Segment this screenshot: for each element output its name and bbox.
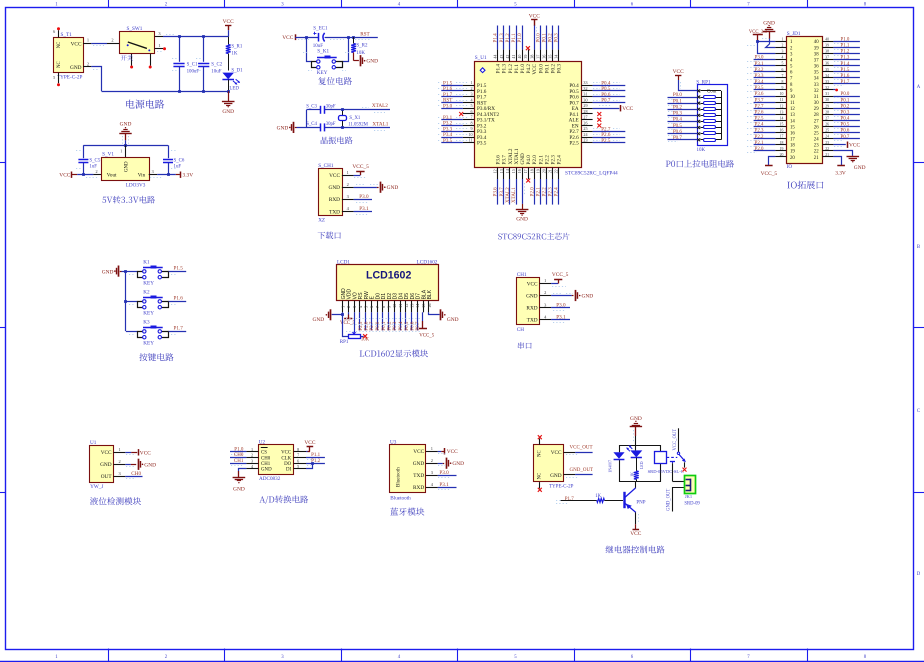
- svg-text:K3: K3: [143, 320, 150, 326]
- MCU top wires and net labels: [497, 26, 499, 50]
- svg-text:1: 1: [87, 38, 89, 43]
- svg-text:27: 27: [814, 119, 819, 124]
- svg-text:1K: 1K: [231, 52, 237, 57]
- transistor base resistor 1K: [561, 500, 597, 502]
- svg-text:P1.1: P1.1: [514, 64, 520, 74]
- LCD1 body: [337, 265, 439, 301]
- svg-text:CH1: CH1: [261, 462, 271, 467]
- svg-text:3.3V: 3.3V: [835, 171, 846, 177]
- svg-text:P3.5: P3.5: [443, 138, 453, 144]
- GND port (reset): [360, 55, 362, 66]
- svg-text:P0.7: P0.7: [673, 136, 683, 141]
- svg-text:P3.5: P3.5: [477, 141, 487, 147]
- MCU top pins 44-34: [497, 50, 499, 61]
- svg-text:9: 9: [781, 86, 783, 90]
- svg-text:31: 31: [583, 92, 587, 97]
- svg-text:P0.4: P0.4: [841, 117, 850, 122]
- svg-text:S_R1: S_R1: [231, 44, 242, 49]
- svg-text:2: 2: [781, 44, 783, 48]
- S_V1 right pin 3: [149, 174, 158, 176]
- S_SW1 left pin 2: [107, 43, 119, 45]
- svg-text:34: 34: [814, 77, 819, 82]
- MCU pin1 diamond mark: [480, 68, 485, 73]
- no-ERC cross T2 bottom: [538, 488, 542, 492]
- svg-text:LED: LED: [229, 87, 239, 92]
- wire crystal top rail: [307, 109, 321, 111]
- wire LCD GND left: [332, 312, 343, 314]
- svg-text:LCD1: LCD1: [337, 259, 350, 265]
- svg-text:P3.1: P3.1: [755, 62, 764, 67]
- svg-text:40: 40: [825, 37, 829, 41]
- svg-text:11: 11: [790, 101, 795, 106]
- MCU S_U1 body: [475, 62, 582, 168]
- junction ldo top: [124, 144, 127, 147]
- svg-text:P0.3: P0.3: [554, 33, 560, 43]
- svg-text:P1.6: P1.6: [174, 296, 184, 302]
- title IO拓展口: [787, 181, 823, 189]
- svg-text:P2.4: P2.4: [755, 123, 764, 128]
- wire JD1 pin3 to 3.3 rail: [758, 41, 776, 53]
- svg-text:P3.7: P3.7: [502, 155, 508, 165]
- svg-text:VCC_5: VCC_5: [352, 164, 369, 170]
- svg-text:P3.5: P3.5: [755, 86, 764, 91]
- relay switch contact: [677, 452, 679, 454]
- svg-text:18: 18: [529, 169, 534, 173]
- svg-text:2: 2: [95, 169, 97, 174]
- svg-text:GND: GND: [582, 294, 594, 300]
- svg-text:P1.1: P1.1: [311, 453, 321, 458]
- svg-text:VCC: VCC: [71, 41, 82, 47]
- svg-text:P4.2: P4.2: [526, 64, 532, 74]
- svg-text:2: 2: [87, 61, 89, 66]
- VCC power port (power circuit): [225, 25, 231, 27]
- svg-text:P4.0: P4.0: [526, 155, 532, 165]
- svg-text:DI: DI: [286, 468, 292, 473]
- svg-text:6: 6: [297, 458, 299, 463]
- module U3 body: [390, 445, 426, 493]
- svg-text:32: 32: [814, 89, 819, 94]
- junction DO-DI: [311, 462, 314, 465]
- no-ERC cross pot right: [363, 334, 367, 338]
- svg-text:VCC: VCC: [622, 106, 633, 112]
- JD1 left wires P3.x P2.x: [754, 59, 776, 61]
- GND port (lcd right): [440, 309, 442, 320]
- svg-text:GND: GND: [222, 109, 234, 115]
- svg-text:GND: GND: [277, 125, 289, 131]
- svg-text:P1.3: P1.3: [502, 64, 508, 74]
- svg-text:B: B: [917, 245, 920, 250]
- GND port (adc): [233, 477, 246, 479]
- svg-text:P0.5: P0.5: [841, 123, 850, 128]
- svg-text:VCC_OUT: VCC_OUT: [673, 429, 678, 451]
- svg-text:10K: 10K: [356, 51, 365, 56]
- title 5V转3.3V电路: [102, 196, 155, 204]
- svg-text:GND: GND: [526, 293, 538, 299]
- svg-text:2: 2: [431, 458, 433, 463]
- svg-text:P0.4: P0.4: [399, 321, 404, 331]
- svg-text:P0.2: P0.2: [551, 64, 557, 74]
- svg-text:11: 11: [469, 138, 473, 143]
- resistor S_R1 1K: [228, 37, 230, 45]
- svg-text:VCC_5: VCC_5: [419, 333, 435, 338]
- svg-text:XTAL1: XTAL1: [511, 187, 517, 203]
- wire U2.GND down: [239, 469, 247, 472]
- svg-text:P0.1: P0.1: [673, 99, 683, 104]
- transistor Q1 PNP: [623, 492, 625, 508]
- svg-text:RXD: RXD: [413, 485, 424, 491]
- svg-text:CH0: CH0: [234, 453, 244, 458]
- svg-text:P2.3: P2.3: [548, 187, 554, 197]
- svg-text:P1.5: P1.5: [841, 68, 850, 73]
- connector S_CH1 body: [319, 169, 343, 216]
- svg-text:XTAL2: XTAL2: [508, 148, 514, 164]
- VCC port (JD1 pin23): [833, 144, 845, 146]
- svg-text:P0.0: P0.0: [376, 321, 381, 331]
- svg-text:P1.3: P1.3: [499, 33, 505, 43]
- svg-text:GND: GND: [329, 185, 341, 191]
- svg-text:S_JD1: S_JD1: [787, 31, 801, 37]
- GND port (MCU): [516, 209, 529, 211]
- svg-text:100uF: 100uF: [187, 69, 200, 74]
- svg-text:17: 17: [790, 138, 795, 143]
- svg-text:35: 35: [825, 68, 829, 72]
- svg-text:P0.3: P0.3: [393, 321, 398, 331]
- svg-text:26: 26: [814, 125, 819, 130]
- svg-text:S_SW1: S_SW1: [127, 26, 143, 32]
- svg-text:TYPE-C-2P: TYPE-C-2P: [549, 485, 574, 490]
- svg-text:RXD: RXD: [526, 306, 537, 312]
- VCC port (liquid): [125, 452, 131, 454]
- sheet zone markers: [108, 0, 110, 7]
- svg-text:17: 17: [780, 135, 784, 139]
- relay branch frame: [620, 446, 661, 453]
- svg-text:28: 28: [825, 110, 829, 114]
- svg-text:GND: GND: [550, 473, 562, 479]
- svg-text:P1.4: P1.4: [841, 62, 850, 67]
- resistor S_R2 10K: [353, 37, 355, 43]
- S_V1 left pin 2: [93, 174, 101, 176]
- LED S_D1: [222, 73, 234, 80]
- svg-text:XTAL2: XTAL2: [372, 103, 388, 109]
- svg-text:P2.5: P2.5: [755, 117, 764, 122]
- wire MCU EA to VCC: [593, 108, 620, 110]
- svg-text:42: 42: [505, 55, 510, 59]
- svg-text:GND: GND: [100, 462, 112, 468]
- svg-text:P2.3: P2.3: [755, 129, 764, 134]
- key K3: [138, 332, 145, 338]
- svg-text:P3.0: P3.0: [439, 470, 449, 476]
- svg-text:P0.2: P0.2: [388, 321, 393, 331]
- svg-text:VCC_5: VCC_5: [552, 272, 569, 278]
- svg-text:P2.5: P2.5: [359, 321, 364, 331]
- wire crystal left vertical: [306, 110, 308, 128]
- svg-text:36: 36: [542, 55, 547, 59]
- svg-text:27: 27: [583, 115, 587, 120]
- connector JK1 SRD-09 body: [685, 476, 696, 494]
- svg-text:S_C3: S_C3: [306, 105, 317, 110]
- svg-text:DO: DO: [284, 462, 292, 467]
- capacitor S_C5 1uF: [83, 145, 85, 158]
- svg-text:23: 23: [814, 144, 819, 149]
- svg-text:P1.0: P1.0: [841, 38, 850, 43]
- svg-text:5: 5: [297, 464, 299, 469]
- S_SW1 pin 1 no-connect dot: [163, 47, 166, 50]
- svg-text:38: 38: [814, 52, 819, 57]
- svg-text:P1.1: P1.1: [841, 44, 850, 49]
- svg-text:19: 19: [535, 169, 540, 173]
- svg-text:26: 26: [583, 120, 587, 125]
- wire pot right stub: [360, 336, 363, 338]
- wire LCD VO to pot wiper: [354, 312, 356, 330]
- title 复位电路: [318, 77, 352, 85]
- svg-text:VCC: VCC: [101, 450, 112, 456]
- svg-text:P3.0: P3.0: [556, 302, 566, 308]
- svg-text:U3: U3: [390, 439, 397, 445]
- junction C6 bottom: [167, 173, 170, 176]
- svg-text:9: 9: [471, 126, 473, 131]
- svg-text:K1: K1: [143, 260, 150, 266]
- svg-text:2: 2: [347, 182, 349, 187]
- svg-text:P1.2: P1.2: [508, 64, 514, 74]
- svg-text:VCC: VCC: [529, 13, 540, 19]
- GND port (JD1 pin2): [763, 31, 775, 33]
- svg-text:1K: 1K: [630, 472, 634, 477]
- svg-text:2: 2: [346, 306, 351, 308]
- svg-text:35: 35: [548, 55, 553, 59]
- svg-text:21: 21: [825, 153, 829, 157]
- switch S_SW1 body: [120, 32, 155, 54]
- junction LED bottom: [227, 90, 230, 93]
- svg-text:Vin: Vin: [138, 172, 146, 178]
- title 继电器控制电路: [606, 546, 665, 554]
- T2 top pin: [539, 439, 541, 445]
- svg-text:1: 1: [347, 170, 349, 175]
- svg-text:36: 36: [814, 65, 819, 70]
- svg-text:Vout: Vout: [107, 172, 117, 178]
- junction bottom rail C2: [202, 90, 205, 93]
- VCC_3.3 port (JD1 pin1): [758, 41, 775, 43]
- svg-text:GND: GND: [313, 317, 325, 323]
- svg-text:39: 39: [825, 44, 829, 48]
- regulator S_V1 LDO3V3 body: [102, 158, 150, 181]
- wire U2.CH0: [230, 457, 246, 459]
- svg-text:13: 13: [499, 169, 504, 173]
- svg-text:P2.0: P2.0: [529, 187, 535, 197]
- svg-text:BLK: BLK: [427, 289, 433, 299]
- VCC_5 port (JD1 pin20): [769, 157, 776, 166]
- no-ERC cross switch: [683, 468, 687, 472]
- svg-text:16: 16: [517, 169, 522, 173]
- svg-text:S_U1: S_U1: [475, 55, 487, 61]
- svg-text:GND: GND: [102, 270, 114, 276]
- svg-text:S_X1: S_X1: [349, 116, 361, 121]
- svg-text:25: 25: [583, 126, 587, 131]
- S_SW1 bottom pin dots: [130, 66, 133, 69]
- title LCD1602显示模块: [360, 350, 428, 358]
- S_T1 pin 2 GND: [83, 66, 91, 68]
- svg-text:1: 1: [471, 80, 473, 85]
- wire CH1.GND (serial): [551, 295, 572, 297]
- ADC U2 body: [259, 445, 294, 475]
- relay LED series resistor 1K: [636, 458, 638, 471]
- svg-text:GND: GND: [261, 468, 272, 473]
- svg-text:TXD: TXD: [329, 209, 340, 215]
- svg-text:30: 30: [825, 98, 829, 102]
- svg-text:P3.6: P3.6: [493, 187, 499, 197]
- S_SW1 pin 3: [155, 36, 163, 38]
- svg-text:38: 38: [529, 55, 534, 59]
- 3.3V port (JD1 pin21): [833, 157, 841, 166]
- svg-text:38: 38: [825, 50, 829, 54]
- svg-text:VCC_5: VCC_5: [761, 171, 778, 177]
- svg-text:VCC: VCC: [329, 173, 340, 179]
- svg-text:P3.6: P3.6: [496, 155, 502, 165]
- wire to key K1: [126, 271, 138, 273]
- key K1: [138, 272, 145, 278]
- S_JD1 pins and numbers: [775, 41, 786, 43]
- svg-text:SRD-09: SRD-09: [684, 501, 700, 506]
- wire CH1.TXD: [354, 211, 372, 213]
- svg-text:S_R2: S_R2: [356, 43, 368, 48]
- svg-text:1: 1: [781, 37, 783, 41]
- VCC_5 port (lcd BLA): [422, 312, 424, 321]
- svg-text:S_C1: S_C1: [187, 63, 198, 68]
- svg-text:8: 8: [781, 80, 783, 84]
- svg-text:GND: GND: [70, 65, 82, 71]
- MCU bottom pins 12-22: [497, 168, 499, 180]
- svg-text:CH: CH: [517, 327, 524, 333]
- svg-text:P2.7: P2.7: [755, 104, 764, 109]
- svg-text:37: 37: [814, 58, 819, 63]
- svg-text:27: 27: [825, 117, 829, 121]
- key K2: [138, 302, 145, 308]
- svg-text:P0.6: P0.6: [673, 130, 683, 135]
- svg-text:P3.0: P3.0: [443, 103, 453, 109]
- junction reset right: [347, 36, 350, 39]
- VCC port (RP1): [675, 75, 681, 77]
- VCC port (bt): [438, 451, 442, 453]
- junction crystal top: [341, 108, 344, 111]
- svg-text:P0.7: P0.7: [601, 98, 611, 104]
- junction reset left: [305, 36, 308, 39]
- wire U3.RXD: [438, 487, 457, 489]
- svg-text:P3.0: P3.0: [755, 56, 764, 61]
- svg-text:P1.4: P1.4: [493, 33, 499, 43]
- svg-text:P0.6: P0.6: [411, 321, 416, 331]
- relay coil dashed link: [667, 456, 678, 458]
- svg-text:VCC: VCC: [630, 531, 641, 537]
- svg-text:GND_OUT: GND_OUT: [666, 489, 671, 511]
- svg-text:P1.2: P1.2: [841, 50, 850, 55]
- svg-text:1: 1: [120, 149, 122, 154]
- svg-text:S_C6: S_C6: [174, 158, 185, 163]
- junction JD1 row1: [756, 40, 759, 43]
- wire LED to bottom rail: [228, 80, 230, 92]
- svg-text:29: 29: [814, 107, 819, 112]
- S_T1 top pin no-connect dot: [57, 27, 60, 30]
- svg-text:2: 2: [111, 38, 113, 43]
- svg-text:39: 39: [814, 46, 819, 51]
- svg-text:20: 20: [790, 156, 795, 161]
- svg-text:18: 18: [790, 144, 795, 149]
- svg-text:40: 40: [517, 55, 522, 59]
- svg-text:CH0: CH0: [261, 456, 271, 461]
- svg-text:16: 16: [790, 131, 795, 136]
- svg-text:S_CH1: S_CH1: [318, 163, 334, 169]
- relay fixed contact T: [670, 461, 675, 463]
- svg-text:P2.6: P2.6: [755, 111, 764, 116]
- MCU left pins 1-11: [463, 85, 474, 87]
- relay LED: [630, 450, 642, 457]
- svg-text:KEY: KEY: [143, 281, 154, 287]
- svg-text:P2.1: P2.1: [535, 187, 541, 197]
- svg-text:P2.1: P2.1: [755, 141, 764, 146]
- svg-text:P0.6: P0.6: [841, 129, 850, 134]
- wire ldo Vin to 3.3V: [157, 174, 176, 176]
- wire U1.OUT: [125, 476, 142, 478]
- svg-text:RXD: RXD: [329, 197, 340, 203]
- svg-text:19: 19: [780, 147, 784, 151]
- svg-text:41: 41: [511, 55, 516, 59]
- wire key rail vertical: [125, 271, 127, 331]
- svg-text:28: 28: [583, 109, 587, 114]
- svg-text:S_C4: S_C4: [306, 122, 317, 127]
- wire T1.GND down to bottom rail: [91, 67, 101, 92]
- svg-text:7: 7: [781, 74, 783, 78]
- svg-text:35: 35: [814, 71, 819, 76]
- svg-text:P0.4: P0.4: [673, 118, 683, 123]
- GND port (download): [380, 182, 382, 193]
- svg-text:U1: U1: [90, 440, 97, 446]
- svg-text:P0.1: P0.1: [841, 98, 850, 103]
- VCC_OUT wire (switch): [678, 428, 680, 452]
- svg-text:P0.3: P0.3: [841, 111, 850, 116]
- svg-text:39: 39: [523, 55, 528, 59]
- svg-text:1: 1: [251, 447, 253, 452]
- svg-text:37: 37: [535, 55, 540, 59]
- svg-text:P0.5: P0.5: [673, 124, 683, 129]
- svg-text:P2.3: P2.3: [551, 155, 557, 165]
- svg-text:P2.4: P2.4: [557, 155, 563, 165]
- GND port (relay top): [630, 426, 642, 428]
- svg-text:15: 15: [511, 169, 516, 173]
- svg-text:P2.6: P2.6: [365, 321, 370, 331]
- svg-text:VCC: VCC: [281, 451, 291, 456]
- svg-text:P2.0: P2.0: [532, 155, 538, 165]
- svg-text:3: 3: [251, 458, 253, 463]
- svg-text:30pF: 30pF: [326, 122, 336, 127]
- svg-text:P1.0: P1.0: [234, 447, 244, 452]
- wire key K1 output: [169, 271, 187, 273]
- svg-text:P2.0: P2.0: [755, 147, 764, 152]
- wire VCC to ldo Vout pin: [77, 174, 93, 176]
- svg-text:GND: GND: [520, 153, 526, 164]
- svg-text:1N4007: 1N4007: [608, 460, 612, 473]
- S_T1 pin 1 VCC: [83, 43, 91, 45]
- svg-text:1: 1: [431, 446, 433, 451]
- svg-text:GND: GND: [125, 161, 130, 172]
- svg-text:GND: GND: [233, 487, 245, 493]
- svg-text:7: 7: [471, 115, 473, 120]
- svg-text:GND: GND: [854, 165, 866, 171]
- svg-text:P2.4: P2.4: [554, 187, 560, 197]
- svg-text:3: 3: [781, 50, 783, 54]
- svg-text:RST: RST: [360, 32, 370, 38]
- svg-text:18: 18: [780, 141, 784, 145]
- svg-text:KEY: KEY: [143, 311, 154, 317]
- svg-text:10uF: 10uF: [211, 69, 221, 74]
- svg-text:CH1: CH1: [234, 459, 244, 464]
